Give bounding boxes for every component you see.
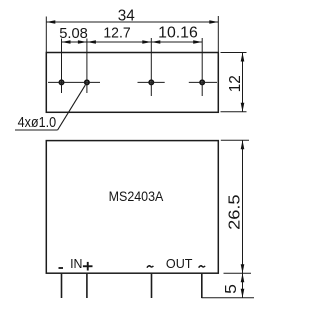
pin label tilde 1 [147, 266, 153, 268]
extension line right for dim 34 [217, 16, 219, 52]
note underline [15, 129, 58, 131]
arrow 12.7 right [142, 40, 151, 44]
pin 2 [86, 274, 88, 298]
pin 3 [151, 274, 153, 298]
svg-text:12.7: 12.7 [103, 25, 130, 42]
pin 1 [61, 274, 63, 298]
dimension line row 5.08 / 12.7 / 10.16 [62, 41, 203, 43]
dimension line 12 [242, 53, 244, 112]
top case outline (top view) [46, 53, 218, 113]
dimension line 26.5 [242, 140, 244, 273]
extension line shared for dim 5 top [224, 272, 252, 274]
pin label minus [59, 267, 64, 269]
hole H3 [149, 80, 153, 84]
arrow 12 bottom [241, 103, 245, 112]
centerline vertical hole 1 / extension line [61, 39, 63, 94]
arrow 34 right [209, 20, 218, 24]
hole H2 [85, 80, 89, 84]
hole H4 [200, 80, 204, 84]
arrow 10.16 left [151, 40, 160, 44]
svg-text:26.5: 26.5 [227, 195, 244, 230]
centerline vertical hole 4 / extension line [201, 38, 203, 96]
svg-text:5.08: 5.08 [59, 25, 88, 42]
hole H1 [59, 80, 63, 84]
arrow 5 top [241, 273, 245, 282]
leader line to hole H2 [58, 85, 86, 130]
arrow 12.7 left [87, 40, 96, 44]
extension line top for dim 12 [221, 52, 247, 54]
arrow 5.08 right [78, 40, 87, 44]
svg-text:5: 5 [223, 284, 240, 294]
arrow 34 left [46, 20, 55, 24]
centerline vertical hole 2 / extension line [86, 39, 88, 94]
svg-text:4xø1.0: 4xø1.0 [18, 114, 57, 131]
arrow 5.08 left [62, 40, 71, 44]
extension line pins bottom for dim 5 [202, 297, 255, 299]
svg-text:34: 34 [118, 8, 136, 25]
pin label plus [83, 262, 93, 271]
pin label tilde 2 [199, 266, 205, 268]
arrow 26.5 bottom [241, 264, 245, 273]
centerline vertical hole 3 / extension line [150, 38, 152, 96]
extension line bottom for dim 12 [221, 111, 247, 113]
pin 4 [201, 274, 203, 298]
svg-text:MS2403A: MS2403A [109, 189, 165, 204]
arrow 5 bottom [241, 289, 245, 298]
bottom case outline (front view) [46, 141, 218, 274]
arrow 26.5 top [241, 140, 245, 149]
svg-text:OUT: OUT [166, 256, 193, 271]
centerline horizontal holes 1-2 [48, 81, 100, 83]
arrow 12 top [241, 53, 245, 62]
extension line top for dim 26.5 [221, 139, 249, 141]
arrow 10.16 right [193, 40, 202, 44]
svg-text:IN: IN [70, 256, 82, 271]
dimension line 34 [46, 21, 218, 23]
dimension line 5 [242, 273, 244, 298]
centerline horizontal hole 3 [138, 81, 165, 83]
svg-text:10.16: 10.16 [158, 25, 198, 42]
extension line left for dim 34 [45, 17, 47, 53]
svg-text:12: 12 [227, 75, 244, 92]
centerline horizontal hole 4 [189, 81, 217, 83]
